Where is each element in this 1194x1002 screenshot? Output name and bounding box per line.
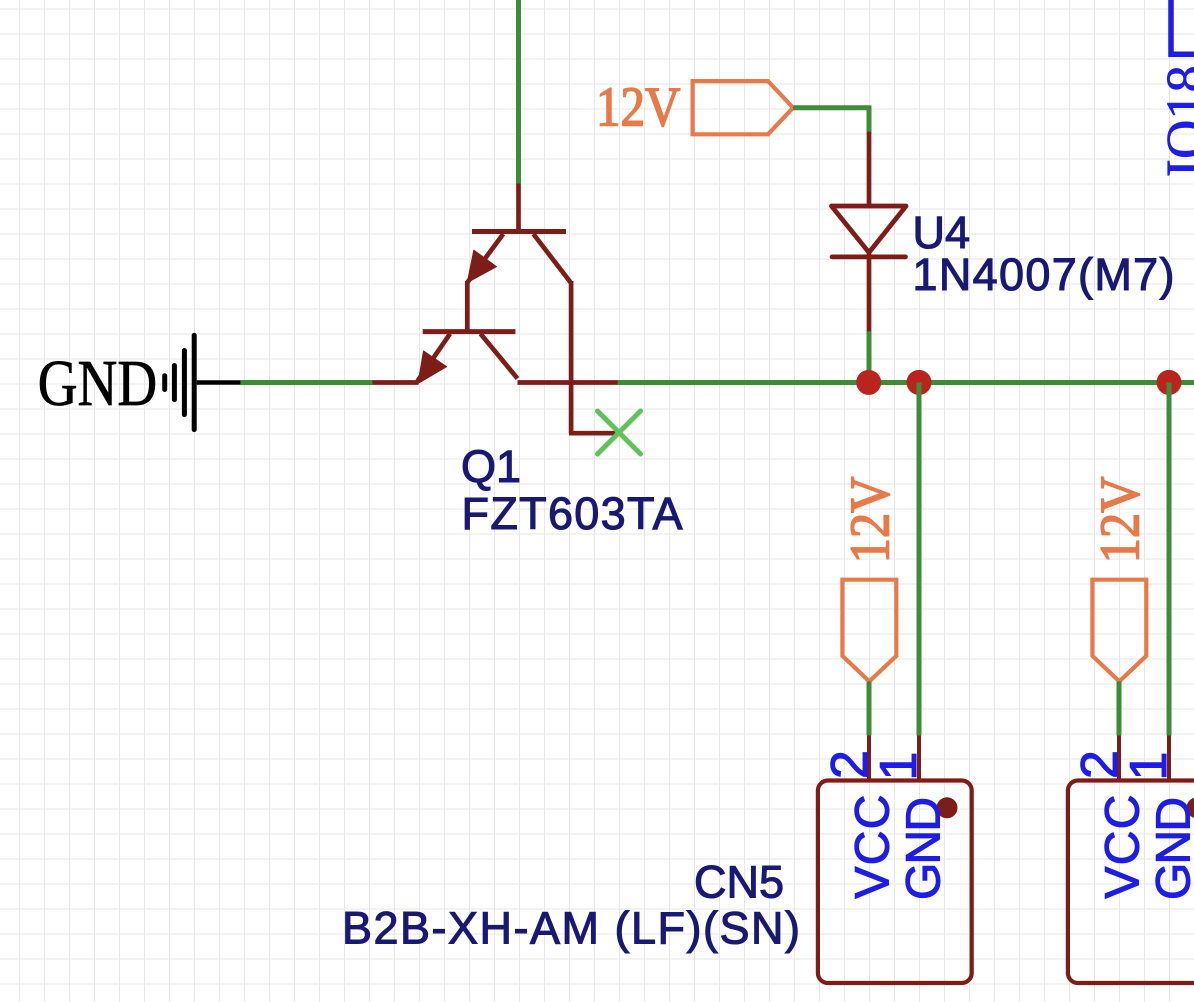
junction dot B (CN5 pin 1) (907, 370, 932, 395)
wire: CN5 flag to pin 2 (867, 681, 872, 735)
wire: Q1 to junctions and right edge (green segment) (618, 380, 1194, 385)
svg-text:12V: 12V (1090, 477, 1152, 564)
junction dot A (diode / wire) (856, 370, 881, 395)
svg-text:CN5: CN5 (694, 856, 784, 907)
power flag 12V (CN5 pin 2) (842, 580, 896, 682)
wire: GND to Q1 emitter (green segment) (241, 380, 373, 385)
wire: net to Q1 collector (top vertical) (516, 0, 521, 184)
wire: junction C down to CN6 pin 1 (1167, 382, 1172, 735)
wire: 12V flag to diode U4 anode (793, 108, 869, 134)
svg-text:1: 1 (1120, 752, 1178, 781)
svg-text:FZT603TA: FZT603TA (462, 488, 683, 539)
connector CN6 (1068, 736, 1194, 984)
net port IO18 (top right, clipped) (1171, 0, 1194, 54)
wire: junction B down to CN5 pin 1 (917, 382, 922, 735)
ground symbol GND (165, 335, 241, 429)
svg-text:12V: 12V (840, 477, 902, 564)
svg-text:12V: 12V (596, 76, 680, 138)
connector CN5 (818, 736, 972, 984)
svg-text:B2B-XH-AM (LF)(SN): B2B-XH-AM (LF)(SN) (342, 903, 800, 954)
transistor Q1 (373, 184, 618, 434)
svg-text:VCC: VCC (1097, 795, 1150, 899)
junction dot C (CN6 pin 1) (1157, 370, 1182, 395)
power flag 12V (CN6 pin 2) (1092, 580, 1146, 682)
svg-text:Q1: Q1 (461, 441, 521, 492)
svg-text:GND: GND (1147, 797, 1194, 900)
wire: CN6 flag to pin 2 (1117, 681, 1122, 735)
wire: diode cathode down to junction (867, 331, 872, 382)
svg-text:IO18: IO18 (1155, 65, 1194, 177)
svg-text:1: 1 (870, 752, 928, 781)
svg-text:1N4007(M7): 1N4007(M7) (913, 249, 1175, 300)
no-connect X on Q1 pin (598, 411, 641, 454)
diode U4 (831, 134, 906, 332)
svg-text:VCC: VCC (847, 795, 900, 899)
svg-text:GND: GND (897, 797, 950, 900)
svg-text:GND: GND (38, 347, 158, 420)
power flag 12V (top) (693, 81, 794, 134)
